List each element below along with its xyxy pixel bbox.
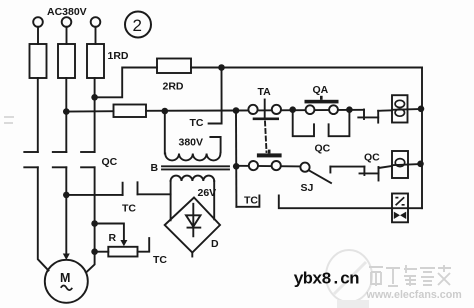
svg-text:TC: TC [122,203,136,215]
svg-text:TC: TC [153,254,167,266]
svg-text:AC380V: AC380V [47,6,87,18]
svg-text:www.elecfans.com: www.elecfans.com [366,289,462,301]
svg-text:TC: TC [190,117,204,129]
svg-text:TC: TC [244,195,258,207]
svg-text:R: R [109,232,117,244]
svg-text:QC: QC [102,156,118,168]
svg-text:QC: QC [315,143,331,155]
svg-text:M: M [60,271,70,285]
svg-text:ybx8.cn: ybx8.cn [294,271,360,290]
svg-text:SJ: SJ [301,182,314,194]
svg-text:2RD: 2RD [163,81,184,93]
svg-text:QA: QA [313,84,329,96]
svg-text:26V: 26V [198,187,217,199]
svg-text:2: 2 [133,16,142,35]
svg-text:1RD: 1RD [108,50,129,62]
svg-text:B: B [151,162,159,174]
svg-text:380V: 380V [179,137,204,149]
svg-text:TA: TA [258,86,272,98]
svg-text:QC: QC [364,152,380,164]
svg-text:D: D [211,238,219,250]
